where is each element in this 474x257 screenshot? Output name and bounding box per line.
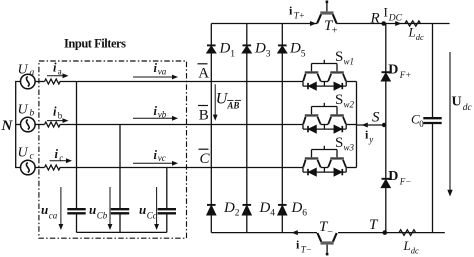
wire C0 branch upper — [432, 24, 434, 118]
svg-text:T: T — [369, 217, 379, 233]
inductor La zigzag — [45, 79, 61, 84]
DF branch vertical — [385, 24, 387, 233]
svg-text:R: R — [370, 10, 380, 26]
svg-text:D: D — [259, 200, 271, 216]
svg-text:U: U — [18, 103, 29, 118]
wire phase b row — [60, 124, 304, 126]
node S line dot — [382, 123, 386, 127]
svg-text:D: D — [388, 169, 398, 184]
voltage arrow uCc — [156, 187, 158, 227]
UAB subscript overbar — [227, 99, 233, 101]
wire Sw2 to S bus — [346, 124, 356, 126]
diode DF+ — [382, 72, 391, 81]
wire phase a to inductor — [35, 81, 44, 83]
svg-text:D: D — [289, 41, 301, 57]
capacitor Cc plates — [158, 209, 176, 213]
wire Sw3 to S bus — [346, 167, 356, 169]
svg-text:i: i — [53, 104, 57, 118]
switch Sw2 — [303, 103, 346, 133]
svg-text:B: B — [199, 108, 209, 124]
source Ua — [21, 74, 36, 89]
svg-text:S: S — [335, 92, 343, 108]
svg-text:U: U — [452, 95, 462, 110]
current arrow iy head — [362, 123, 368, 128]
switch Sw1 — [303, 60, 346, 90]
svg-text:vc: vc — [158, 153, 166, 163]
svg-text:F+: F+ — [399, 70, 412, 80]
node B overbar — [198, 105, 208, 107]
svg-text:w2: w2 — [344, 100, 355, 110]
wire bottom rail left of T- — [211, 232, 317, 234]
current arrow ivb — [133, 117, 174, 119]
capacitor Ca plates — [67, 209, 85, 213]
wire left source bus — [16, 82, 21, 168]
svg-text:N: N — [1, 118, 14, 134]
wire S output line — [357, 124, 386, 126]
wire C0 branch lower — [432, 124, 434, 233]
wire below Cb — [119, 215, 121, 233]
wire top rail right of T+ — [336, 23, 449, 25]
svg-text:I: I — [384, 5, 388, 20]
inductor Ldc bottom — [399, 230, 416, 236]
svg-text:5: 5 — [301, 49, 306, 59]
wire phase a row — [60, 81, 304, 83]
current arrow iT- head — [292, 230, 298, 235]
current arrow ivc — [133, 162, 174, 164]
node R dot — [381, 21, 386, 26]
svg-text:w3: w3 — [344, 143, 355, 153]
svg-text:D: D — [254, 41, 266, 57]
wire capacitor common rail — [77, 231, 167, 233]
current arrow iT+ head — [310, 21, 316, 26]
wire capacitor Ca drop — [76, 82, 78, 209]
bridge leg C vertical — [281, 24, 283, 233]
svg-text:a: a — [58, 67, 62, 77]
wire top rail left of T+ — [211, 23, 317, 25]
svg-text:i: i — [55, 147, 59, 161]
current arrow IDC head — [395, 21, 401, 26]
svg-text:C: C — [200, 151, 211, 167]
wire capacitor Cc drop — [166, 168, 168, 209]
svg-text:2: 2 — [235, 209, 240, 219]
svg-text:w1: w1 — [344, 57, 355, 67]
svg-text:DC: DC — [388, 14, 403, 24]
svg-text:6: 6 — [302, 209, 307, 219]
node T dot — [383, 230, 388, 235]
svg-text:u: u — [89, 202, 96, 217]
svg-text:U: U — [18, 63, 29, 78]
switch Sw3 — [303, 146, 346, 176]
inductor Ldc top — [405, 21, 420, 26]
svg-text:Cc: Cc — [147, 210, 157, 220]
node A overbar — [198, 63, 208, 65]
svg-text:L: L — [408, 24, 416, 39]
current arrow ic — [50, 160, 70, 162]
svg-text:T−: T− — [301, 245, 312, 255]
source Ub — [21, 117, 36, 132]
bridge leg A vertical — [210, 24, 212, 233]
svg-text:i: i — [296, 237, 300, 251]
svg-text:4: 4 — [270, 209, 275, 219]
voltage arrow UAB — [214, 84, 216, 117]
wire phase b to inductor — [35, 124, 44, 126]
voltage arrow uCb — [109, 187, 111, 227]
svg-text:−: − — [327, 227, 333, 238]
diode D3 — [243, 45, 252, 52]
inductor Lc zigzag — [45, 165, 61, 170]
svg-text:+: + — [332, 26, 338, 37]
svg-text:3: 3 — [266, 49, 271, 59]
diode D2 — [207, 205, 216, 215]
capacitor Cb plates — [111, 209, 129, 213]
current arrow ib — [47, 120, 66, 122]
svg-text:b: b — [58, 110, 63, 120]
transistor T- — [317, 233, 336, 255]
bridge leg B vertical — [246, 24, 248, 233]
wire phase c to inductor — [35, 167, 44, 169]
svg-text:y: y — [368, 134, 373, 144]
S bus vertical — [356, 82, 358, 168]
inductor Lb zigzag — [45, 122, 61, 127]
input filter dash-dot box — [39, 61, 187, 238]
svg-text:S: S — [335, 49, 343, 65]
svg-text:Cb: Cb — [97, 210, 108, 220]
svg-text:U: U — [18, 146, 29, 161]
wire Sw1 to S bus — [346, 81, 356, 83]
current arrow ia — [47, 75, 66, 77]
voltage arrow Udc — [449, 52, 451, 192]
wire below Ca — [76, 215, 78, 233]
source Uc — [21, 160, 36, 175]
svg-text:S: S — [372, 109, 380, 125]
svg-text:F−: F− — [399, 177, 412, 187]
voltage arrow uca — [60, 187, 62, 227]
svg-text:D: D — [388, 63, 398, 78]
diode D5 — [278, 45, 287, 52]
svg-text:D: D — [291, 200, 303, 216]
diode D4 — [243, 205, 252, 215]
svg-text:c: c — [30, 151, 35, 161]
svg-text:Input Filters: Input Filters — [64, 37, 126, 51]
svg-text:AB: AB — [226, 100, 239, 110]
svg-text:1: 1 — [230, 49, 235, 59]
svg-text:c: c — [59, 153, 63, 163]
svg-text:S: S — [335, 135, 343, 151]
svg-text:D: D — [223, 200, 235, 216]
svg-text:vb: vb — [158, 110, 167, 120]
svg-text:dc: dc — [411, 246, 419, 256]
current arrow iva — [133, 76, 174, 78]
svg-text:b: b — [30, 108, 35, 118]
wire phase c row — [60, 167, 304, 169]
svg-text:0: 0 — [419, 119, 424, 129]
svg-text:a: a — [30, 68, 35, 78]
svg-text:ca: ca — [49, 210, 58, 220]
svg-text:D: D — [219, 41, 231, 57]
svg-text:u: u — [41, 202, 48, 217]
svg-text:L: L — [403, 238, 411, 253]
wire stub node N to source b — [16, 124, 21, 126]
svg-text:T+: T+ — [294, 11, 305, 21]
node C overbar — [199, 148, 209, 150]
svg-text:dc: dc — [463, 103, 473, 113]
svg-text:i: i — [289, 3, 293, 17]
svg-text:A: A — [198, 66, 209, 82]
wire capacitor Cb drop — [119, 125, 121, 209]
wire bottom rail right of T- — [338, 232, 445, 234]
svg-text:va: va — [158, 66, 167, 76]
capacitor C0 plates — [423, 118, 441, 123]
diode DF- — [382, 179, 391, 188]
svg-text:u: u — [139, 202, 146, 217]
diode D6 — [278, 205, 287, 215]
svg-text:i: i — [53, 61, 57, 75]
diode D1 — [207, 45, 216, 52]
svg-text:dc: dc — [416, 32, 424, 42]
transistor T+ — [317, 1, 336, 24]
wire below Cc — [166, 215, 168, 233]
